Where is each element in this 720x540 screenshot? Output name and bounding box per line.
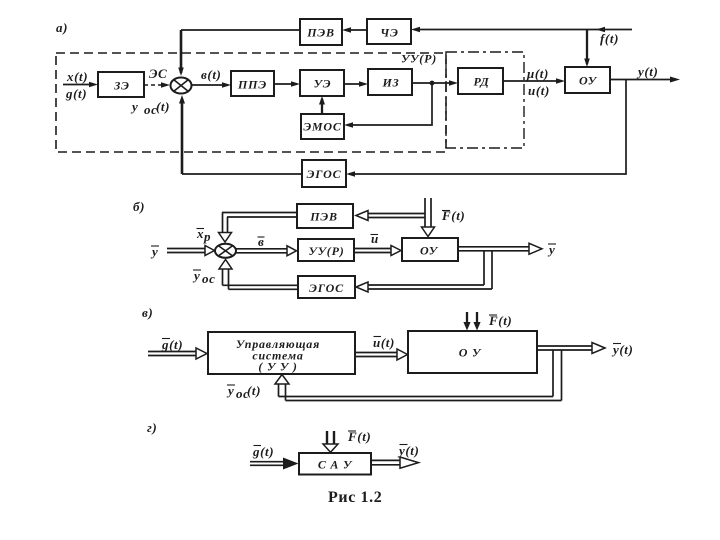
svg-text:г): г) xyxy=(147,420,157,435)
wire output feedback down to ЭГОС xyxy=(349,80,626,175)
comparison node (б) xyxy=(215,244,236,258)
wire ППЭ to УЭ xyxy=(274,83,297,85)
wire feedback to ЭМОС xyxy=(347,83,432,125)
block ПЭВ xyxy=(300,19,342,45)
svg-text:ЭС: ЭС xyxy=(149,66,167,81)
wire F(t) double arrows into САУ (г) xyxy=(326,431,328,445)
node dot after ИЗ xyxy=(430,81,435,86)
wire ИЗ to РД xyxy=(412,82,455,84)
svg-text:УУ(Р): УУ(Р) xyxy=(308,244,344,258)
svg-text:y(t): y(t) xyxy=(636,64,658,79)
wire ЭГОС to node (б) xyxy=(223,284,299,286)
svg-text:р: р xyxy=(203,229,211,244)
block ПЭВ (б) xyxy=(297,204,353,228)
block ИЗ xyxy=(368,69,412,95)
block УЭ xyxy=(300,70,344,96)
wire F(t) double arrows into ОУ (в) xyxy=(466,312,468,324)
svg-text:ПЭВ: ПЭВ xyxy=(309,210,338,224)
wire output tap down to ЭГОС (б) xyxy=(483,251,485,285)
hollow arrow into ПЭВ right xyxy=(356,211,368,221)
svg-text:ЭГОС: ЭГОС xyxy=(309,281,344,295)
block РД xyxy=(458,68,503,94)
wire ПЭВ to node (б) xyxy=(222,212,297,214)
svg-text:у(t): у(t) xyxy=(397,443,419,458)
wire input to УУ box xyxy=(148,351,197,353)
svg-text:ЭМОС: ЭМОС xyxy=(303,120,342,134)
svg-text:x(t): x(t) xyxy=(66,69,88,84)
block ОУ xyxy=(565,67,610,93)
wire input to node (б) xyxy=(167,248,206,250)
svg-text:f(t): f(t) xyxy=(600,31,619,46)
dash-dot boundary box around РД xyxy=(446,52,524,148)
svg-text:ОУ: ОУ xyxy=(579,74,598,88)
wire ЗЭ to node (dashed) xyxy=(144,84,167,86)
block ОУ (б) xyxy=(402,238,458,261)
block ЭМОС xyxy=(301,114,344,139)
block ЗЭ xyxy=(98,72,144,97)
wire input into ЗЭ xyxy=(63,84,95,86)
svg-text:ИЗ: ИЗ xyxy=(381,76,399,90)
svg-text:в(t): в(t) xyxy=(201,67,221,82)
svg-text:УЭ: УЭ xyxy=(314,77,332,91)
svg-text:g(t): g(t) xyxy=(161,337,183,352)
svg-text:а): а) xyxy=(56,20,68,35)
wire feedback (в) xyxy=(552,350,554,397)
svg-text:б): б) xyxy=(133,199,145,214)
svg-text:g(t): g(t) xyxy=(252,444,274,459)
wire output y(t) xyxy=(610,79,676,81)
block ЧЭ xyxy=(367,19,411,44)
svg-text:Рис 1.2: Рис 1.2 xyxy=(328,489,382,506)
svg-text:ЧЭ: ЧЭ xyxy=(380,26,398,40)
wire САУ output (г) xyxy=(371,459,402,461)
svg-text:u(t): u(t) xyxy=(373,335,395,350)
svg-text:u(t): u(t) xyxy=(528,83,550,98)
wire РД to ОУ xyxy=(503,80,562,82)
wire УЭ to ИЗ xyxy=(344,83,365,85)
wire f(t) drop into ОУ xyxy=(586,30,588,65)
wire ОУ output (в) xyxy=(537,345,593,347)
wire F branch to ПЭВ xyxy=(367,213,425,215)
wire ОУ output (б) xyxy=(458,246,530,248)
block ЭГОС (б) xyxy=(298,276,355,298)
svg-text:(t): (t) xyxy=(156,99,170,114)
block УУ(Р) (б) xyxy=(298,239,354,261)
svg-text:в: в xyxy=(258,234,264,249)
wire УУ to ОУ (в) xyxy=(355,352,398,354)
block ОУ (в) xyxy=(408,331,537,373)
hollow arrow up into УУ bottom (в) xyxy=(275,375,289,385)
wire input to САУ xyxy=(250,461,284,463)
block ППЭ xyxy=(231,71,274,96)
svg-text:ЗЭ: ЗЭ xyxy=(113,79,130,93)
hollow arrow into ОУ top xyxy=(422,227,435,237)
svg-text:ЭГОС: ЭГОС xyxy=(307,167,342,181)
block УУ (в) xyxy=(208,332,355,374)
svg-text:g(t): g(t) xyxy=(65,86,87,101)
block САУ xyxy=(299,453,371,475)
svg-text:ППЭ: ППЭ xyxy=(237,78,267,92)
svg-text:у(t): у(t) xyxy=(611,342,633,357)
wire ЭГОС back to node xyxy=(182,173,302,175)
dashed boundary box (system) xyxy=(56,53,446,152)
wire node to ППЭ xyxy=(192,84,228,86)
wire node to УУ(Р) xyxy=(236,248,288,250)
hollow arrow up into node (б) xyxy=(219,260,232,270)
svg-text:y: y xyxy=(130,99,138,114)
svg-text:ПЭВ: ПЭВ xyxy=(306,26,335,40)
svg-text:С А У: С А У xyxy=(318,458,353,472)
wire F(t) vertical double line xyxy=(424,198,426,228)
svg-text:u: u xyxy=(371,231,379,246)
wire f(t) top line into ЧЭ xyxy=(414,29,632,31)
svg-text:ОУ: ОУ xyxy=(420,244,439,258)
svg-text:О У: О У xyxy=(459,346,482,360)
wire ЧЭ to ПЭВ xyxy=(345,29,367,31)
svg-text:(t): (t) xyxy=(247,383,261,398)
svg-text:УУ(Р): УУ(Р) xyxy=(401,52,437,66)
wire ЭМОС up to УЭ xyxy=(321,99,323,114)
svg-text:РД: РД xyxy=(474,75,490,89)
comparison node xyxy=(171,78,192,94)
svg-text:μ(t): μ(t) xyxy=(526,66,549,81)
svg-text:( У У ): ( У У ) xyxy=(258,360,297,374)
wire УУ(Р) to ОУ (б) xyxy=(354,248,392,250)
svg-text:в): в) xyxy=(142,305,153,320)
svg-text:ос: ос xyxy=(202,271,215,286)
wire ПЭВ down to comparison node xyxy=(181,29,300,31)
hollow arrow down into node xyxy=(219,233,232,243)
block ЭГОС xyxy=(302,160,346,187)
